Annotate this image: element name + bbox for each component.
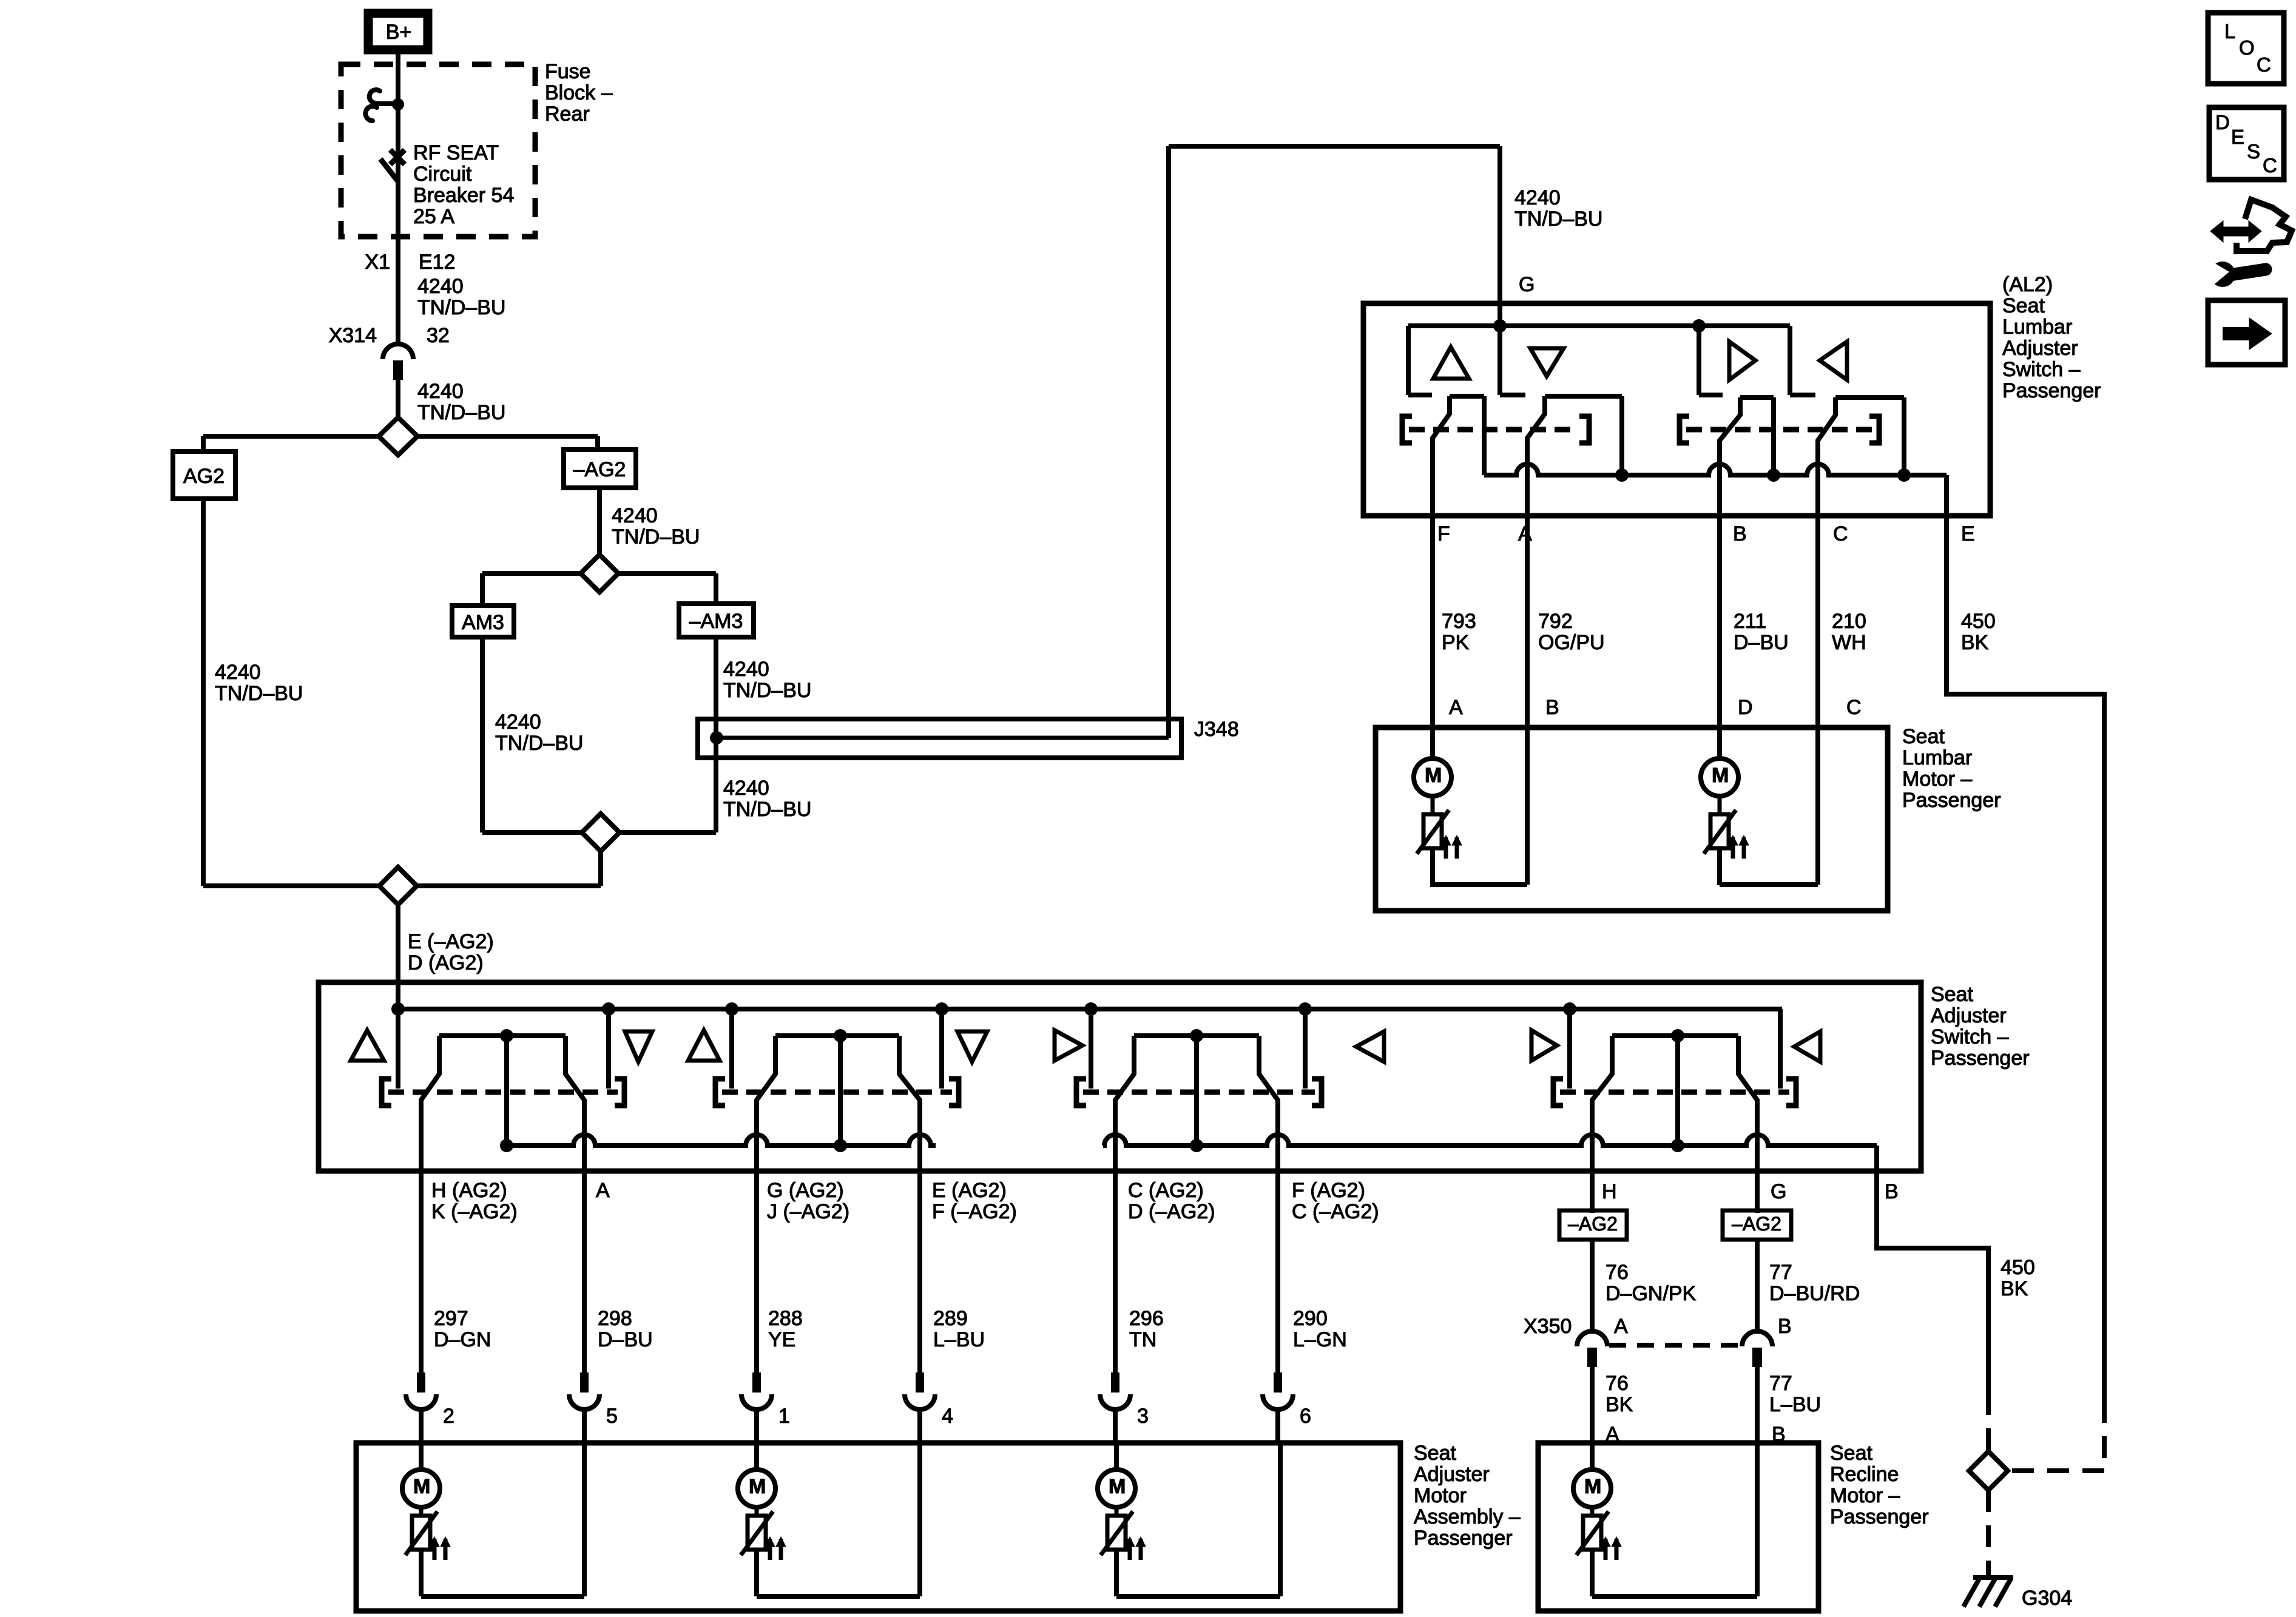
svg-text:TN: TN	[1129, 1328, 1156, 1351]
adjuster pair 3 triangle 1	[1055, 1030, 1082, 1061]
wire splice S2 horizontal	[482, 571, 581, 576]
svg-text:4240: 4240	[723, 777, 769, 800]
svg-text:J (–AG2): J (–AG2)	[767, 1200, 849, 1223]
adjuster ground rail right segment	[1103, 1135, 1877, 1146]
adjuster pair 2 triangle 2	[957, 1031, 987, 1062]
svg-text:F (–AG2): F (–AG2)	[932, 1200, 1017, 1223]
svg-text:–AM3: –AM3	[689, 610, 743, 633]
wire lumbar E down and right	[1947, 475, 2104, 1401]
svg-text:450: 450	[2001, 1256, 2035, 1279]
lumbar down triangle	[1530, 348, 1564, 376]
junction bus right pair	[1692, 319, 1706, 333]
junction G on bus	[1493, 319, 1507, 333]
svg-text:4240: 4240	[495, 711, 541, 734]
fuse -AG2 box G	[1723, 1210, 1791, 1240]
adjuster pair 1 left pole arm	[421, 1036, 439, 1372]
seat recline motor box	[1538, 1443, 1818, 1611]
svg-text:TN/D–BU: TN/D–BU	[495, 732, 583, 755]
recline motor return wire	[1592, 1594, 1757, 1599]
svg-text:77: 77	[1769, 1372, 1792, 1395]
fuse -AG2 box	[564, 450, 636, 488]
wire H to X350	[1590, 1240, 1595, 1332]
wire B+ to circuit breaker	[396, 53, 400, 343]
svg-text:M: M	[1109, 1475, 1126, 1498]
svg-text:792: 792	[1538, 610, 1573, 633]
svg-text:77: 77	[1769, 1261, 1792, 1284]
svg-text:TN/D–BU: TN/D–BU	[723, 679, 811, 702]
svg-text:X1: X1	[365, 251, 390, 274]
wire to -AG2	[595, 436, 600, 450]
lumbar linkage bracket right 2	[1869, 416, 1879, 443]
svg-text:3: 3	[1137, 1405, 1149, 1428]
svg-text:D–GN: D–GN	[434, 1328, 491, 1351]
svg-text:298: 298	[598, 1307, 632, 1330]
splice diamond S3	[582, 814, 620, 851]
svg-text:X314: X314	[329, 324, 377, 347]
svg-text:C: C	[1833, 522, 1848, 545]
svg-text:5: 5	[606, 1405, 618, 1428]
svg-text:25 A: 25 A	[413, 205, 454, 228]
icon DESC box	[2209, 107, 2284, 180]
connector X350 A	[1577, 1331, 1607, 1346]
wire X350 to recline motor	[1590, 1366, 1595, 1470]
adjuster pair 1 triangle 1	[351, 1030, 384, 1061]
lumbar motor 2	[1701, 758, 1738, 796]
svg-text:210: 210	[1832, 610, 1866, 633]
adjuster pair 2 triangle 1	[688, 1030, 720, 1061]
adjuster motor 2	[754, 1443, 759, 1470]
svg-text:Block –: Block –	[545, 81, 613, 104]
adjuster pair 1 triangle 2	[625, 1031, 652, 1062]
svg-text:Seat: Seat	[1414, 1442, 1456, 1465]
lumbar bus left contact leg	[1406, 326, 1411, 395]
lumbar bus right end leg	[1788, 326, 1792, 395]
svg-text:C: C	[2257, 53, 2271, 76]
svg-text:E (–AG2): E (–AG2)	[408, 930, 494, 953]
adjuster pair 3 left pole arm	[1115, 1036, 1134, 1372]
svg-text:Passenger: Passenger	[1902, 789, 2001, 812]
wire splice S3 horizontal	[482, 830, 582, 835]
svg-text:Seat: Seat	[2002, 294, 2045, 317]
junction rail B-leg	[1767, 468, 1780, 482]
lumbar linkage bracket right 1	[1579, 416, 1589, 443]
wire dashed to ground	[1986, 1490, 1991, 1575]
svg-text:L: L	[2224, 20, 2235, 42]
svg-text:WH: WH	[1832, 631, 1866, 654]
wire top run to lumbar switch	[1169, 144, 1500, 149]
svg-text:793: 793	[1442, 610, 1476, 633]
svg-text:B: B	[1545, 696, 1559, 719]
wire splice S4 horizontal	[203, 883, 379, 888]
svg-text:D–BU: D–BU	[598, 1328, 653, 1351]
adjuster pair 4 feed contact left	[1567, 1009, 1572, 1089]
svg-text:D (AG2): D (AG2)	[408, 951, 484, 974]
svg-text:S: S	[2247, 140, 2260, 163]
adjuster pair 1 common drop	[504, 1036, 509, 1146]
wire 450 BK dashed to ground splice	[1986, 1393, 1991, 1453]
lumbar bus right-pair left leg	[1697, 326, 1701, 395]
adjuster motor 2 return wire	[917, 1443, 922, 1596]
svg-text:G304: G304	[2022, 1587, 2072, 1610]
adjuster pair 2 pole bar	[775, 1033, 899, 1038]
svg-text:B: B	[1733, 522, 1747, 545]
svg-text:A: A	[596, 1179, 610, 1202]
wire to AM3	[480, 573, 485, 606]
adjuster pair 4 triangle 1	[1531, 1030, 1557, 1061]
svg-text:D–BU: D–BU	[1734, 631, 1789, 654]
recline motor	[1573, 1470, 1611, 1507]
svg-text:Passenger: Passenger	[1414, 1527, 1513, 1550]
svg-text:76: 76	[1606, 1372, 1629, 1395]
ground G304	[1973, 1575, 2013, 1580]
splice diamond S5	[1969, 1451, 2008, 1490]
breaker blade	[380, 159, 398, 181]
lumbar right triangle	[1729, 342, 1755, 380]
svg-text:211: 211	[1734, 610, 1766, 633]
wire to -AM3	[714, 573, 718, 604]
svg-text:289: 289	[933, 1307, 968, 1330]
seat lumbar adjuster switch box AL2	[1363, 303, 1990, 516]
svg-text:RF SEAT: RF SEAT	[413, 141, 499, 164]
svg-text:L–BU: L–BU	[1769, 1393, 1821, 1416]
svg-text:L–BU: L–BU	[933, 1328, 985, 1351]
svg-text:C: C	[2263, 154, 2277, 177]
wire X314 to splice	[396, 376, 400, 417]
adjuster pair 2 left pole arm	[757, 1036, 775, 1372]
svg-text:TN/D–BU: TN/D–BU	[723, 798, 811, 821]
svg-text:2: 2	[443, 1405, 454, 1428]
wire B to lumbar motor 2	[1717, 516, 1722, 758]
wire AM3 down to splice S3	[480, 637, 485, 832]
svg-text:Adjuster: Adjuster	[1414, 1463, 1490, 1486]
lumbar linkage bracket left 2	[1680, 416, 1689, 443]
wire 450 BK dashed to splice	[2102, 1401, 2107, 1471]
svg-text:M: M	[749, 1475, 766, 1498]
adjuster motor 3 return wire	[1278, 1443, 1283, 1596]
adjuster pair 3 right pole arm	[1259, 1036, 1278, 1372]
svg-text:C (AG2): C (AG2)	[1128, 1179, 1204, 1202]
adjuster pair 4 left pole arm	[1592, 1036, 1612, 1213]
svg-text:Assembly –: Assembly –	[1414, 1505, 1521, 1528]
adjuster pair 3 pole bar	[1134, 1033, 1259, 1038]
seat lumbar motor box	[1376, 727, 1888, 911]
adjuster pair 3 feed contact right	[1303, 1009, 1308, 1089]
svg-text:4240: 4240	[612, 504, 658, 527]
adjuster pair 1 pole bar	[439, 1033, 566, 1038]
svg-text:H: H	[1602, 1180, 1617, 1203]
lumbar common rail	[1484, 464, 1947, 475]
svg-text:Adjuster: Adjuster	[1931, 1004, 2007, 1027]
breaker contact x	[390, 150, 405, 164]
svg-text:O: O	[2239, 36, 2255, 59]
svg-text:M: M	[1712, 764, 1729, 787]
svg-text:4240: 4240	[417, 275, 464, 298]
battery feed B+ terminal	[368, 13, 428, 50]
seat adjuster switch box	[319, 982, 1921, 1171]
connector X350 B	[1742, 1331, 1772, 1346]
svg-text:Passenger: Passenger	[1830, 1505, 1929, 1528]
adjuster pair 1 right pole arm	[566, 1036, 584, 1372]
svg-text:B+: B+	[386, 21, 412, 44]
wire S3 to S4 level	[598, 851, 603, 886]
lumbar bus G contact stub	[1500, 393, 1525, 397]
svg-text:E: E	[2231, 126, 2244, 148]
svg-text:4240: 4240	[215, 661, 261, 684]
splice pack J348 outline	[698, 719, 1181, 758]
svg-text:TN/D–BU: TN/D–BU	[417, 401, 505, 424]
adjuster pair 3 common drop	[1194, 1036, 1199, 1146]
svg-text:G: G	[1771, 1180, 1786, 1203]
svg-text:D–BU/RD: D–BU/RD	[1769, 1282, 1860, 1305]
svg-text:76: 76	[1606, 1261, 1629, 1284]
svg-text:BK: BK	[1961, 631, 1989, 654]
svg-text:Fuse: Fuse	[545, 60, 591, 83]
svg-text:Seat: Seat	[1830, 1442, 1872, 1465]
svg-text:(AL2): (AL2)	[2002, 273, 2053, 296]
svg-text:Switch –: Switch –	[2002, 358, 2081, 381]
adjuster switch feed bus	[398, 1007, 1782, 1011]
lumbar motor 1 return	[1430, 885, 1435, 887]
svg-text:C (–AG2): C (–AG2)	[1292, 1200, 1379, 1223]
svg-text:4: 4	[942, 1405, 953, 1428]
svg-text:Seat: Seat	[1931, 983, 1973, 1006]
svg-text:L–GN: L–GN	[1293, 1328, 1347, 1351]
connector X350 dashes	[1609, 1343, 1740, 1348]
svg-text:450: 450	[1961, 610, 1996, 633]
svg-text:Passenger: Passenger	[2002, 379, 2101, 402]
svg-text:Motor –: Motor –	[1902, 768, 1972, 791]
svg-text:TN/D–BU: TN/D–BU	[417, 296, 505, 319]
svg-text:32: 32	[427, 324, 450, 347]
svg-text:288: 288	[768, 1307, 803, 1330]
svg-text:D: D	[1738, 696, 1753, 719]
svg-text:AM3: AM3	[462, 611, 504, 634]
lumbar motor 1	[1414, 758, 1451, 796]
adjuster pair 4 common drop	[1675, 1036, 1680, 1146]
adjuster motor connectors	[417, 1372, 425, 1393]
lumbar linkage dashes pair 1	[1409, 427, 1578, 433]
adjuster pair 4 triangle 2	[1794, 1031, 1820, 1062]
adjuster motor 1	[419, 1443, 424, 1470]
svg-text:D: D	[2215, 111, 2230, 133]
wire A to lumbar motor loop	[1525, 516, 1530, 885]
svg-text:4240: 4240	[723, 658, 769, 681]
svg-text:H (AG2): H (AG2)	[431, 1179, 507, 1202]
svg-text:OG/PU: OG/PU	[1538, 631, 1605, 654]
svg-text:A: A	[1449, 696, 1463, 719]
splice pack J348 internal bus	[717, 736, 1169, 740]
wire -AG2 down to splice S2	[597, 488, 602, 555]
svg-text:BK: BK	[1606, 1393, 1633, 1416]
wire G feed into lumbar switch	[1497, 146, 1502, 395]
svg-text:D (–AG2): D (–AG2)	[1128, 1200, 1215, 1223]
lumbar left triangle	[1820, 342, 1847, 380]
wire F to lumbar motor 1	[1430, 516, 1435, 758]
icon LOC box	[2208, 13, 2284, 84]
splice diamond S2	[581, 555, 618, 592]
lumbar motor 2 return	[1720, 882, 1818, 887]
adjuster pair 1 feed contact right	[606, 1009, 611, 1089]
svg-text:G (AG2): G (AG2)	[767, 1179, 844, 1202]
lumbar switch C pole	[1835, 395, 1904, 400]
adjuster pair 3 triangle 2	[1356, 1031, 1384, 1062]
adjuster pair 3 feed contact left	[1089, 1009, 1093, 1089]
svg-text:J348: J348	[1194, 718, 1239, 741]
svg-text:A: A	[1614, 1315, 1628, 1338]
wire B from rail	[1877, 1146, 1988, 1393]
adjuster ground rail left segment	[507, 1135, 936, 1146]
adjuster motor 1 return wire	[582, 1443, 587, 1596]
icon forward arrow box	[2208, 300, 2285, 365]
svg-text:E: E	[1961, 522, 1975, 545]
adjuster pair 1 feed contact left	[396, 1009, 400, 1089]
lumbar switch feed bus	[1408, 323, 1790, 328]
svg-text:–AG2: –AG2	[1732, 1213, 1781, 1235]
lumbar switch B pole	[1740, 395, 1774, 400]
wire J348 up to top run	[1166, 146, 1171, 738]
svg-text:4240: 4240	[417, 380, 464, 403]
svg-text:Recline: Recline	[1830, 1463, 1899, 1486]
splice diamond S1	[379, 417, 417, 455]
svg-text:E (AG2): E (AG2)	[932, 1179, 1007, 1202]
svg-text:Switch –: Switch –	[1931, 1025, 2009, 1048]
adjuster pair 2 feed contact right	[939, 1009, 944, 1089]
svg-text:1: 1	[778, 1405, 790, 1428]
svg-text:YE: YE	[768, 1328, 795, 1351]
svg-text:296: 296	[1129, 1307, 1164, 1330]
svg-text:X350: X350	[1524, 1315, 1572, 1338]
fuse -AM3 box	[679, 604, 754, 637]
icon connector-repair tool	[2222, 227, 2250, 236]
svg-text:B: B	[1778, 1315, 1792, 1338]
junction rail C-leg	[1897, 468, 1911, 482]
adjuster pair 4 pole bar	[1612, 1033, 1738, 1038]
svg-text:TN/D–BU: TN/D–BU	[612, 525, 700, 549]
adjuster pair 1 linkage	[382, 1079, 391, 1106]
adjuster pair 4 linkage	[1553, 1079, 1563, 1106]
adjuster pair 2 linkage	[715, 1079, 725, 1106]
adjuster pair 4 right pole arm	[1738, 1036, 1757, 1213]
svg-text:F: F	[1437, 522, 1450, 545]
svg-text:Circuit: Circuit	[413, 163, 472, 186]
svg-text:Motor –: Motor –	[1830, 1484, 1900, 1507]
junction on breaker	[392, 98, 404, 110]
svg-text:F (AG2): F (AG2)	[1292, 1179, 1365, 1202]
svg-text:PK: PK	[1442, 631, 1470, 654]
lumbar linkage bracket left 1	[1402, 416, 1412, 443]
svg-text:4240: 4240	[1514, 186, 1561, 209]
svg-text:Breaker 54: Breaker 54	[413, 184, 514, 207]
wire to AG2	[201, 436, 206, 451]
svg-text:290: 290	[1293, 1307, 1328, 1330]
lumbar up triangle	[1433, 347, 1469, 379]
wire C to lumbar motor loop	[1815, 516, 1820, 885]
wire AG2 down long branch	[201, 499, 206, 886]
svg-text:6: 6	[1300, 1405, 1311, 1428]
seat adjuster motor assembly box	[356, 1443, 1400, 1611]
wire G to X350	[1755, 1240, 1760, 1332]
svg-text:Motor: Motor	[1414, 1484, 1467, 1507]
svg-text:M: M	[1425, 764, 1442, 787]
svg-text:TN/D–BU: TN/D–BU	[215, 682, 303, 705]
adjuster pair 2 right pole arm	[899, 1036, 920, 1372]
svg-text:D–GN/PK: D–GN/PK	[1606, 1282, 1697, 1305]
svg-text:AG2: AG2	[183, 465, 225, 488]
wire splice S1 horizontal	[203, 434, 379, 439]
wire S4 down to seat adjuster switch	[396, 905, 400, 1089]
adjuster pair 2 feed contact left	[729, 1009, 734, 1089]
svg-text:Passenger: Passenger	[1931, 1047, 2030, 1070]
fuse block - rear dashed outline	[341, 64, 535, 237]
svg-text:C: C	[1846, 696, 1862, 719]
svg-text:E12: E12	[419, 251, 456, 274]
svg-text:Lumbar: Lumbar	[2002, 316, 2072, 339]
junction -AM3 on J348	[710, 731, 723, 744]
circuit breaker CB54 hook	[370, 90, 380, 103]
svg-text:Adjuster: Adjuster	[2002, 337, 2078, 360]
svg-text:–AG2: –AG2	[1568, 1213, 1618, 1235]
svg-text:BK: BK	[2001, 1277, 2028, 1300]
svg-text:G: G	[1519, 273, 1535, 296]
fuse AG2 box	[173, 451, 235, 499]
svg-text:Rear: Rear	[545, 103, 590, 126]
svg-text:297: 297	[434, 1307, 468, 1330]
lumbar switch A pole	[1545, 394, 1622, 399]
fuse AM3 box	[452, 606, 514, 637]
svg-text:M: M	[413, 1475, 430, 1498]
svg-text:TN/D–BU: TN/D–BU	[1514, 208, 1602, 231]
adjuster pair 4 feed contact right	[1778, 1009, 1783, 1089]
svg-text:Lumbar: Lumbar	[1902, 746, 1972, 769]
adjuster pair 2 common drop	[838, 1036, 843, 1146]
junction rail A-leg	[1615, 468, 1629, 482]
wire -AM3 down through J348	[714, 637, 718, 832]
lumbar switch F pole	[1450, 394, 1484, 399]
fuse -AG2 box H	[1559, 1210, 1627, 1240]
svg-text:–AG2: –AG2	[573, 458, 626, 481]
adjuster motor 3	[1114, 1443, 1119, 1470]
svg-text:K (–AG2): K (–AG2)	[431, 1200, 518, 1223]
lumbar linkage dashes pair 2	[1686, 427, 1872, 433]
splice diamond S4	[379, 867, 417, 905]
svg-text:Seat: Seat	[1902, 725, 1945, 748]
svg-text:M: M	[1584, 1475, 1601, 1498]
svg-text:B: B	[1885, 1180, 1899, 1203]
adjuster pair 3 linkage	[1076, 1079, 1086, 1106]
